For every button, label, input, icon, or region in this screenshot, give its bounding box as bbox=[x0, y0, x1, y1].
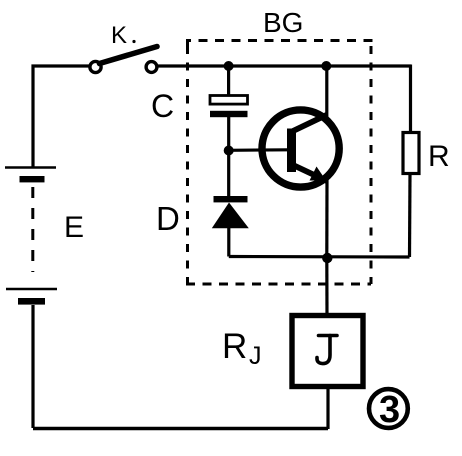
wire: top rail, left segment from battery corner to switch bbox=[33, 66, 91, 168]
svg-text:E: E bbox=[64, 211, 84, 244]
BG dashed box bbox=[186, 41, 371, 285]
node: top rail / capacitor branch bbox=[224, 61, 234, 71]
label K dot bbox=[132, 40, 135, 43]
transistor: circle bbox=[262, 110, 339, 187]
svg-text:K: K bbox=[111, 22, 127, 49]
wire: right vertical from resistor to bottom internal rail bbox=[408, 174, 412, 258]
wire: base node down to diode bbox=[227, 151, 230, 197]
wire: relay J bottom lead bbox=[326, 386, 329, 429]
battery E: cell 1 long plate bbox=[5, 166, 56, 169]
wire: top rail from switch to right corner bbox=[157, 64, 411, 67]
wire: diode down and corner to bottom internal rail bbox=[227, 228, 230, 257]
battery E: cell 2 short thick plate bbox=[18, 298, 45, 305]
wire: emitter down to bottom internal rail bbox=[325, 180, 328, 258]
node: base / diode junction bbox=[224, 146, 234, 156]
figure number: circled 3 bbox=[369, 389, 408, 431]
svg-text:J: J bbox=[249, 342, 262, 370]
transistor: collector stroke bbox=[293, 115, 328, 132]
svg-text:BG: BG bbox=[263, 7, 303, 38]
svg-text:C: C bbox=[151, 88, 174, 124]
capacitor C bottom plate (solid) bbox=[210, 111, 248, 117]
wire: dashed link between battery cells bbox=[31, 187, 34, 272]
transistor: emitter arrowhead bbox=[310, 167, 327, 181]
wire: relay J top lead to emitter node bbox=[325, 258, 328, 316]
diode D triangle bbox=[212, 203, 249, 229]
diode D cathode bar bbox=[214, 196, 248, 202]
svg-text:3: 3 bbox=[379, 389, 400, 431]
wire: left vertical below battery bbox=[31, 305, 34, 428]
label J inside relay box bbox=[317, 336, 337, 364]
battery E: cell 1 short thick plate bbox=[20, 176, 45, 182]
wire: bottom internal rail bbox=[229, 255, 410, 259]
capacitor C top plate (outlined) bbox=[210, 96, 248, 105]
wire: bottom rail bbox=[33, 427, 328, 430]
switch K bbox=[90, 47, 157, 73]
transistor: emitter stroke bbox=[293, 165, 327, 181]
wire: base wire to transistor bbox=[229, 148, 288, 152]
transistor: base bar bbox=[287, 129, 296, 173]
node: emitter / relay / rail junction bbox=[322, 253, 332, 263]
battery E: cell 2 long plate bbox=[6, 288, 57, 291]
wire: right vertical drop to resistor bbox=[409, 65, 412, 134]
wire: stub from top rail to capacitor bbox=[227, 66, 230, 96]
wire: capacitor to base node bbox=[227, 117, 230, 151]
resistor R bbox=[403, 133, 419, 174]
svg-text:R: R bbox=[428, 140, 450, 173]
wire: collector up to top rail bbox=[325, 66, 328, 116]
svg-text:D: D bbox=[156, 200, 180, 237]
svg-text:R: R bbox=[222, 327, 247, 366]
node: top rail / collector branch bbox=[321, 61, 331, 71]
relay coil J box bbox=[292, 316, 363, 387]
